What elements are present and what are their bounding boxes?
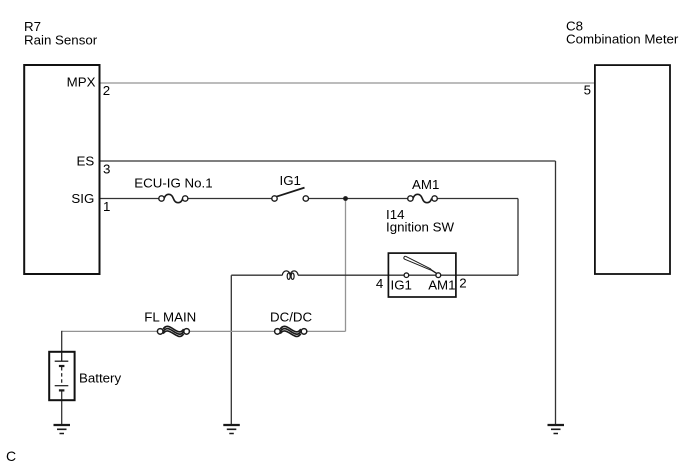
wire IG1 switch to AM1 fuse through junction: [308, 198, 408, 200]
box R7 Rain Sensor: [24, 65, 99, 274]
wire battery to FL MAIN (gray): [62, 330, 157, 332]
wire vertical x=518 down: [517, 199, 519, 276]
fuse ECU-IG No.1: [159, 194, 188, 202]
wire fuse to IG1 switch: [188, 198, 273, 200]
box I14 Ignition SW: [388, 253, 456, 297]
svg-text:ECU-IG No.1: ECU-IG No.1: [134, 176, 212, 191]
svg-text:IG1: IG1: [391, 278, 412, 293]
wire inductor line y=275 from x=231.3 to ignition SW pin IG1: [231, 274, 282, 276]
switch lever inside ignition SW: [404, 256, 437, 273]
svg-text:DC/DC: DC/DC: [270, 309, 313, 324]
wire SIG net (pin 1 to ECU-IG fuse): [100, 198, 159, 200]
svg-text:ES: ES: [77, 153, 95, 168]
wire battery bottom to ground: [61, 391, 63, 425]
ground inductor branch: [223, 425, 240, 434]
svg-text:MPX: MPX: [67, 74, 96, 89]
pin IG1 circle: [404, 273, 409, 278]
wire battery corner vertical (dark): [61, 331, 63, 352]
wire MPX net (pin 2 to pin 5, gray): [100, 82, 594, 84]
wire DC/DC to corner x=345.5 (gray): [307, 330, 346, 332]
svg-text:IG1: IG1: [280, 173, 301, 188]
wire ES net vertical down to ground: [555, 161, 557, 425]
svg-text:Battery: Battery: [79, 370, 121, 385]
svg-text:AM1: AM1: [412, 177, 439, 192]
fuse AM1: [408, 194, 438, 202]
inductor coil: [282, 271, 298, 279]
ground battery: [54, 425, 71, 434]
svg-text:C: C: [6, 448, 16, 464]
wire gray vertical from junction to DC/DC output: [345, 199, 347, 332]
svg-text:FL MAIN: FL MAIN: [144, 309, 196, 324]
svg-text:3: 3: [103, 162, 110, 177]
svg-text:4: 4: [376, 276, 383, 291]
wire ES net horizontal (pin 3 to x=555.5): [100, 160, 556, 162]
svg-text:1: 1: [103, 199, 110, 214]
box C8 Combination Meter: [595, 65, 670, 274]
svg-text:Rain Sensor: Rain Sensor: [24, 32, 98, 47]
svg-text:5: 5: [584, 83, 591, 98]
pin AM1 circle: [436, 273, 441, 278]
svg-text:2: 2: [459, 276, 466, 291]
node junction dot: [343, 196, 348, 201]
switch IG1: [272, 188, 309, 202]
wire vertical x=231.3 down to ground: [230, 275, 232, 424]
fusible link FL MAIN: [157, 326, 189, 336]
svg-text:2: 2: [103, 83, 110, 98]
svg-text:SIG: SIG: [71, 191, 94, 206]
svg-text:Combination Meter: Combination Meter: [566, 32, 679, 47]
svg-text:AM1: AM1: [428, 278, 455, 293]
ground ES branch: [548, 425, 565, 434]
wire AM1 fuse to corner x=518: [437, 198, 518, 200]
wire FL MAIN to DC/DC (gray): [189, 330, 274, 332]
fusible link DC/DC: [275, 326, 307, 336]
svg-text:Ignition SW: Ignition SW: [386, 220, 454, 235]
battery: [49, 352, 74, 400]
